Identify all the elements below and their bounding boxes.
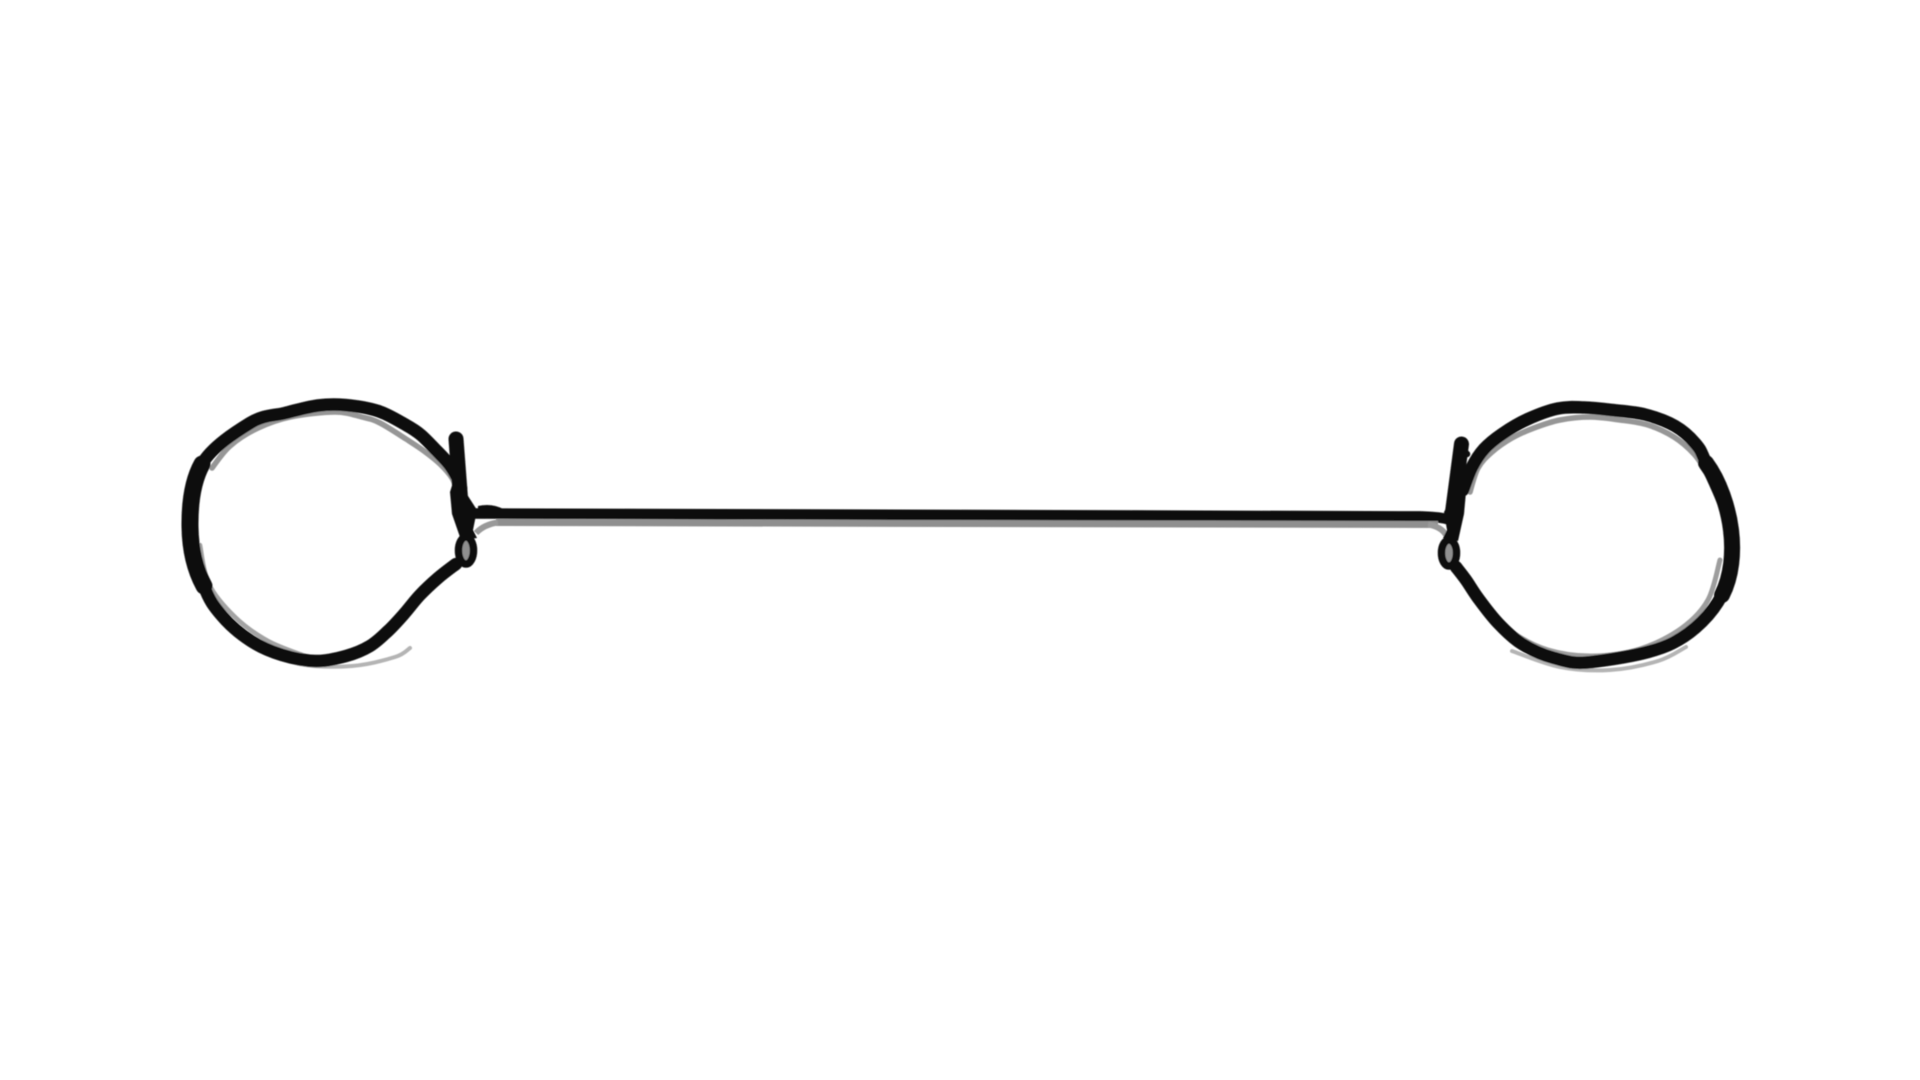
bar left tip bump — [478, 505, 503, 515]
left stub (wire end) — [456, 439, 461, 498]
right junction blob — [1443, 478, 1466, 541]
left twist loop — [459, 537, 474, 564]
left ring left-flank thickening — [190, 464, 204, 586]
right twist loop — [1442, 540, 1457, 566]
bar gray hook left — [476, 523, 498, 534]
right ring gray inner highlight bottom-right — [1472, 560, 1720, 656]
left ring gray inner highlight lower-left — [200, 545, 305, 656]
left ring gray inner highlight top — [212, 412, 458, 492]
right ring gray inner highlight top — [1470, 417, 1708, 492]
bar dark strand — [474, 514, 1450, 521]
right ring right-flank thickening — [1706, 463, 1732, 595]
right ring gray outer-bottom highlight — [1512, 647, 1686, 670]
right stub (wire end) — [1453, 444, 1462, 512]
left ring gray outer-bottom highlight — [255, 647, 410, 667]
left junction blob — [450, 476, 477, 540]
bar bright strand — [496, 523, 1438, 525]
left ring — [190, 404, 461, 661]
right stub tip spur — [1461, 449, 1467, 454]
bar gray hook right — [1428, 525, 1446, 536]
right ring — [1456, 407, 1732, 663]
